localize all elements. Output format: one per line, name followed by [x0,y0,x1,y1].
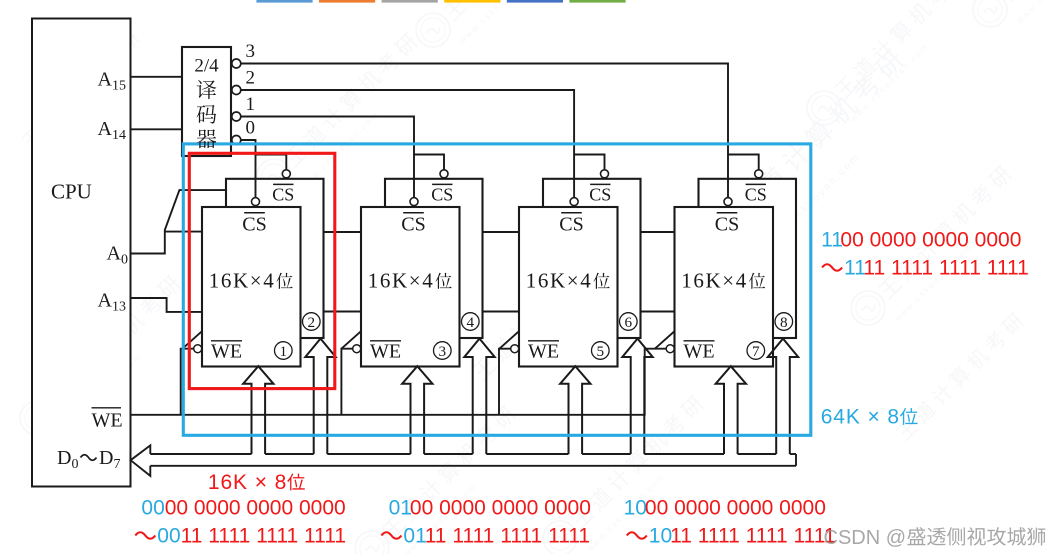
svg-text:CSDN @: CSDN @ [824,527,907,549]
svg-text:3: 3 [246,41,256,62]
svg-text:CS: CS [401,213,425,235]
svg-text:WE: WE [211,341,242,363]
svg-text:CS: CS [242,213,266,235]
svg-text:00: 00 [141,497,164,520]
svg-text:CS: CS [589,184,611,204]
svg-text:CS: CS [745,184,767,204]
svg-text:01: 01 [403,525,426,548]
svg-text:64K × 8: 64K × 8 [821,406,900,429]
svg-text:5: 5 [597,343,605,360]
svg-text:6: 6 [625,314,633,331]
svg-text:16K×4: 16K×4 [368,269,435,293]
svg-text:11 1111 1111 1111: 11 1111 1111 1111 [863,257,1028,280]
svg-text:1: 1 [280,343,288,360]
svg-text:WE: WE [370,341,401,363]
svg-text:01: 01 [389,497,412,520]
svg-text:2: 2 [308,314,316,331]
svg-text:11 1111 1111 1111: 11 1111 1111 1111 [425,525,590,548]
svg-text:00: 00 [157,525,180,548]
svg-text:WE: WE [684,341,715,363]
svg-text:00 0000 0000 0000: 00 0000 0000 0000 [840,229,1021,252]
svg-text:CPU: CPU [51,180,92,204]
svg-text:CS: CS [559,213,583,235]
svg-text:16K × 8: 16K × 8 [208,471,287,494]
svg-text:00 0000 0000 0000: 00 0000 0000 0000 [410,497,591,520]
svg-text:CS: CS [431,184,453,204]
svg-text:00 0000 0000 0000: 00 0000 0000 0000 [645,497,826,520]
svg-text:2/4: 2/4 [194,56,219,77]
svg-text:16K×4: 16K×4 [209,269,276,293]
svg-text:7: 7 [752,343,760,360]
svg-text:11 1111 1111 1111: 11 1111 1111 1111 [181,525,346,548]
svg-text:0: 0 [246,118,256,139]
svg-text:00 0000 0000 0000: 00 0000 0000 0000 [165,497,346,520]
svg-text:CS: CS [715,213,739,235]
svg-text:4: 4 [467,314,475,331]
svg-text:1: 1 [246,94,256,115]
svg-text:3: 3 [439,343,447,360]
svg-text:WE: WE [528,341,559,363]
svg-text:WE: WE [92,410,123,432]
svg-text:16K×4: 16K×4 [526,269,593,293]
svg-text:16K×4: 16K×4 [681,269,748,293]
svg-text:11 1111 1111 1111: 11 1111 1111 1111 [670,525,835,548]
svg-text:CS: CS [272,184,294,204]
svg-text:10: 10 [649,525,672,548]
svg-text:2: 2 [246,68,256,89]
svg-text:8: 8 [780,314,788,331]
svg-text:10: 10 [624,497,647,520]
